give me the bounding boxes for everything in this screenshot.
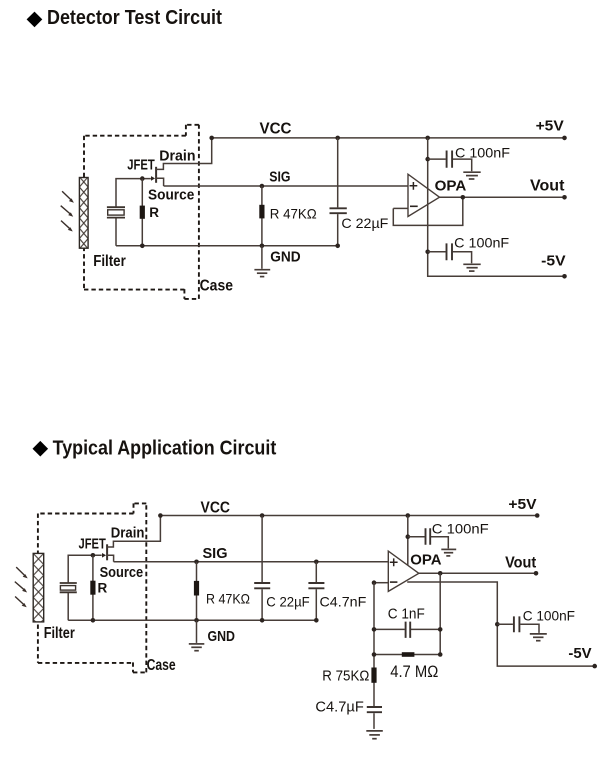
node VCC-opamp supply 2	[406, 513, 411, 518]
wire JFET 2 drain to VCC	[107, 516, 160, 548]
ground symbol (GND rail)	[254, 246, 270, 277]
svg-text:Vout: Vout	[530, 178, 565, 195]
wire element bottom 2	[67, 593, 69, 620]
svg-text:-5V: -5V	[541, 252, 565, 269]
node supply-cap bottom	[425, 250, 430, 255]
svg-text:SIG: SIG	[269, 169, 290, 186]
node feedback-output	[461, 195, 466, 200]
wire inverting input 2	[374, 582, 388, 584]
wire GND rail 2	[68, 619, 316, 621]
title diamond 2	[33, 441, 49, 457]
capacitor C 100nF (upper) wiring	[428, 159, 472, 171]
svg-text:R 47KΩ: R 47KΩ	[270, 205, 317, 221]
resistor R (sensor 2) lead	[92, 555, 94, 620]
svg-text:R: R	[98, 580, 108, 595]
svg-text:Case: Case	[147, 657, 176, 674]
capacitor C 100nF 2b plates	[514, 616, 520, 632]
capacitor C 22uF leads	[337, 138, 339, 246]
svg-text:C 100nF: C 100nF	[432, 521, 489, 537]
op-amp OPA 2 triangle	[388, 551, 419, 591]
svg-text:Drain: Drain	[159, 148, 195, 165]
capacitor C 100nF (lower) plates	[447, 243, 453, 260]
op-amp plus sign	[410, 182, 418, 190]
capacitor C 100nF 2b wiring	[497, 624, 539, 633]
wire JFET source to SIG	[156, 178, 164, 186]
ground symbol (C100nF 2a)	[441, 549, 456, 556]
svg-text:Vout: Vout	[505, 554, 537, 571]
transistor JFET gate arrow	[151, 176, 155, 181]
capacitor C4.7nF leads	[315, 562, 317, 621]
wire opamp supply vertical and -5V rail	[428, 138, 565, 276]
ground symbol (C4.7uF)	[366, 731, 383, 739]
wire feedback left vertical	[373, 583, 375, 707]
capacitor C 22uF plates	[330, 208, 347, 213]
node drain-VCC	[209, 136, 214, 141]
wire element top to gate 2	[68, 555, 102, 582]
node supply-cap 2a	[406, 534, 411, 539]
node R-GND 2	[91, 618, 96, 623]
svg-text:OPA: OPA	[410, 551, 441, 568]
ground symbol (lower C100nF)	[463, 264, 480, 271]
node inverting input junction	[372, 580, 377, 585]
svg-text:C4.7nF: C4.7nF	[320, 594, 367, 610]
svg-text:Typical Application Circuit: Typical Application Circuit	[53, 437, 277, 459]
svg-text:C4.7µF: C4.7µF	[315, 699, 364, 715]
sensor case (dashed) bottom circuit	[38, 503, 146, 673]
transistor JFET channel	[155, 167, 157, 183]
node C4.7nF-GND	[314, 618, 319, 623]
title diamond 1	[27, 12, 43, 28]
svg-text:C 100nF: C 100nF	[455, 144, 510, 160]
svg-text:Drain: Drain	[111, 525, 145, 542]
incident IR arrow 5	[15, 582, 27, 593]
pyroelectric element	[107, 207, 125, 217]
wire SIG rail	[164, 185, 408, 187]
node drain-VCC 2	[158, 513, 163, 518]
node C22-GND	[335, 244, 340, 249]
svg-text:C 22µF: C 22µF	[266, 594, 309, 610]
wire feedback loop	[393, 197, 463, 225]
node Vout terminal 2	[534, 571, 539, 576]
node R47K-GND	[260, 244, 265, 249]
resistor R 47K 2 leads	[196, 562, 198, 621]
pyroelectric element 2	[60, 583, 77, 592]
capacitor C 100nF (upper) plates	[447, 151, 453, 168]
wire VCC rail	[212, 137, 565, 139]
capacitor C 100nF 2a plates	[426, 528, 431, 545]
wire output to Vout 2	[419, 572, 536, 574]
svg-text:JFET: JFET	[79, 535, 106, 552]
wire feedback right vertical	[439, 573, 441, 654]
node SIG-R47K	[260, 184, 265, 189]
incident IR arrow 6	[15, 597, 27, 608]
node supply-cap top	[425, 157, 430, 162]
wire GND rail	[116, 245, 338, 247]
wire JFET drain to VCC	[156, 138, 212, 170]
node VCC-opamp supply	[425, 136, 430, 141]
svg-text:-5V: -5V	[568, 645, 591, 662]
node 4.7M right	[438, 652, 443, 657]
svg-text:JFET: JFET	[127, 157, 155, 174]
transistor JFET 2 channel	[106, 544, 108, 560]
node +5V terminal 2	[535, 513, 540, 518]
capacitor C4.7uF plates	[367, 707, 382, 712]
svg-text:OPA: OPA	[435, 178, 467, 195]
svg-text:+5V: +5V	[508, 496, 536, 513]
op-amp minus sign	[410, 205, 418, 207]
svg-text:R: R	[149, 205, 159, 220]
node SIG-C4.7nF	[314, 560, 319, 565]
wire opamp supply vertical 2	[407, 516, 409, 566]
node SIG-R47K 2	[194, 560, 199, 565]
IR window filter 2 (crosshatched)	[33, 553, 44, 622]
svg-text:R 75KΩ: R 75KΩ	[322, 669, 369, 685]
ground symbol (upper C100nF)	[463, 172, 480, 179]
svg-text:VCC: VCC	[201, 499, 231, 516]
resistor R 47K 2 body	[194, 581, 199, 596]
ground symbol (C100nF 2b)	[530, 634, 547, 641]
wire inverting input	[393, 207, 408, 209]
incident IR arrow 4	[16, 567, 28, 578]
wire output to Vout	[440, 196, 565, 198]
node 4.7M left	[372, 652, 377, 657]
svg-text:Source: Source	[100, 564, 144, 581]
op-amp OPA triangle	[408, 174, 440, 216]
capacitor C 100nF 2a wiring	[408, 537, 449, 549]
incident IR arrow 3	[61, 221, 73, 232]
node -5V terminal	[562, 274, 567, 279]
capacitor C 22uF 2 leads	[261, 516, 263, 621]
svg-text:C 100nF: C 100nF	[523, 607, 575, 623]
incident IR arrow 2	[61, 206, 73, 217]
resistor R (sensor 2) body	[90, 581, 95, 595]
node -5V cap branch	[495, 622, 500, 627]
node VCC-C22 2	[260, 513, 265, 518]
node output junction 2	[438, 571, 443, 576]
resistor 4.7 MOhm body	[402, 652, 415, 657]
node -5V terminal 2	[592, 664, 597, 669]
node gate junction 2	[91, 553, 96, 558]
svg-text:Source: Source	[148, 187, 194, 204]
resistor R 47K body	[259, 205, 264, 219]
incident IR arrow 1	[62, 191, 74, 203]
IR window filter (crosshatched)	[79, 178, 88, 249]
wire element bottom	[115, 218, 117, 246]
node R-GND	[140, 244, 145, 249]
svg-text:C 1nF: C 1nF	[388, 607, 425, 623]
node Vout terminal	[562, 195, 567, 200]
node R47K-GND 2	[194, 618, 199, 623]
svg-text:C 100nF: C 100nF	[454, 234, 509, 250]
node +5V terminal	[562, 136, 567, 141]
node VCC-C22	[335, 136, 340, 141]
svg-text:SIG: SIG	[203, 545, 228, 562]
wire V- supply to -5V rail	[407, 582, 595, 666]
svg-text:GND: GND	[270, 249, 301, 266]
op-amp 2 minus sign	[390, 581, 398, 583]
wire element top to gate	[116, 179, 151, 207]
resistor 4.7 MOhm wire	[374, 654, 440, 656]
capacitor C 1nF plates	[406, 622, 411, 638]
wire SIG rail 2	[114, 561, 389, 563]
svg-text:GND: GND	[208, 628, 236, 645]
resistor R 47K leads	[261, 186, 263, 246]
svg-text:Case: Case	[200, 278, 233, 295]
capacitor C 100nF (lower) wiring	[428, 252, 472, 263]
node C1nF right	[438, 627, 443, 632]
wire JFET 2 source to SIG	[107, 555, 114, 562]
svg-text:R 47KΩ: R 47KΩ	[206, 590, 250, 606]
node gate junction	[140, 176, 145, 181]
svg-text:Filter: Filter	[44, 625, 75, 642]
svg-text:+5V: +5V	[536, 118, 564, 135]
op-amp 2 plus sign	[390, 558, 398, 566]
capacitor C 22uF 2 plates	[254, 583, 270, 588]
sensor case (dashed) top circuit	[84, 125, 199, 299]
wire VCC rail 2	[160, 515, 537, 517]
svg-text:Filter: Filter	[93, 253, 126, 270]
resistor R 75K body	[371, 668, 376, 683]
capacitor C4.7nF plates	[308, 583, 324, 588]
node C1nF left	[372, 627, 377, 632]
ground symbol (GND rail 2)	[189, 620, 205, 650]
resistor R (sensor) lead	[141, 179, 143, 246]
resistor R body	[140, 206, 145, 219]
svg-text:4.7 MΩ: 4.7 MΩ	[390, 663, 438, 681]
svg-text:VCC: VCC	[260, 121, 292, 138]
node C22-GND 2	[260, 618, 265, 623]
capacitor C 1nF wiring	[374, 628, 440, 630]
capacitor C4.7uF lower lead	[373, 713, 375, 729]
transistor JFET 2 gate arrow	[102, 553, 106, 558]
svg-text:C 22µF: C 22µF	[341, 215, 388, 231]
svg-text:Detector Test Circuit: Detector Test Circuit	[47, 7, 222, 29]
